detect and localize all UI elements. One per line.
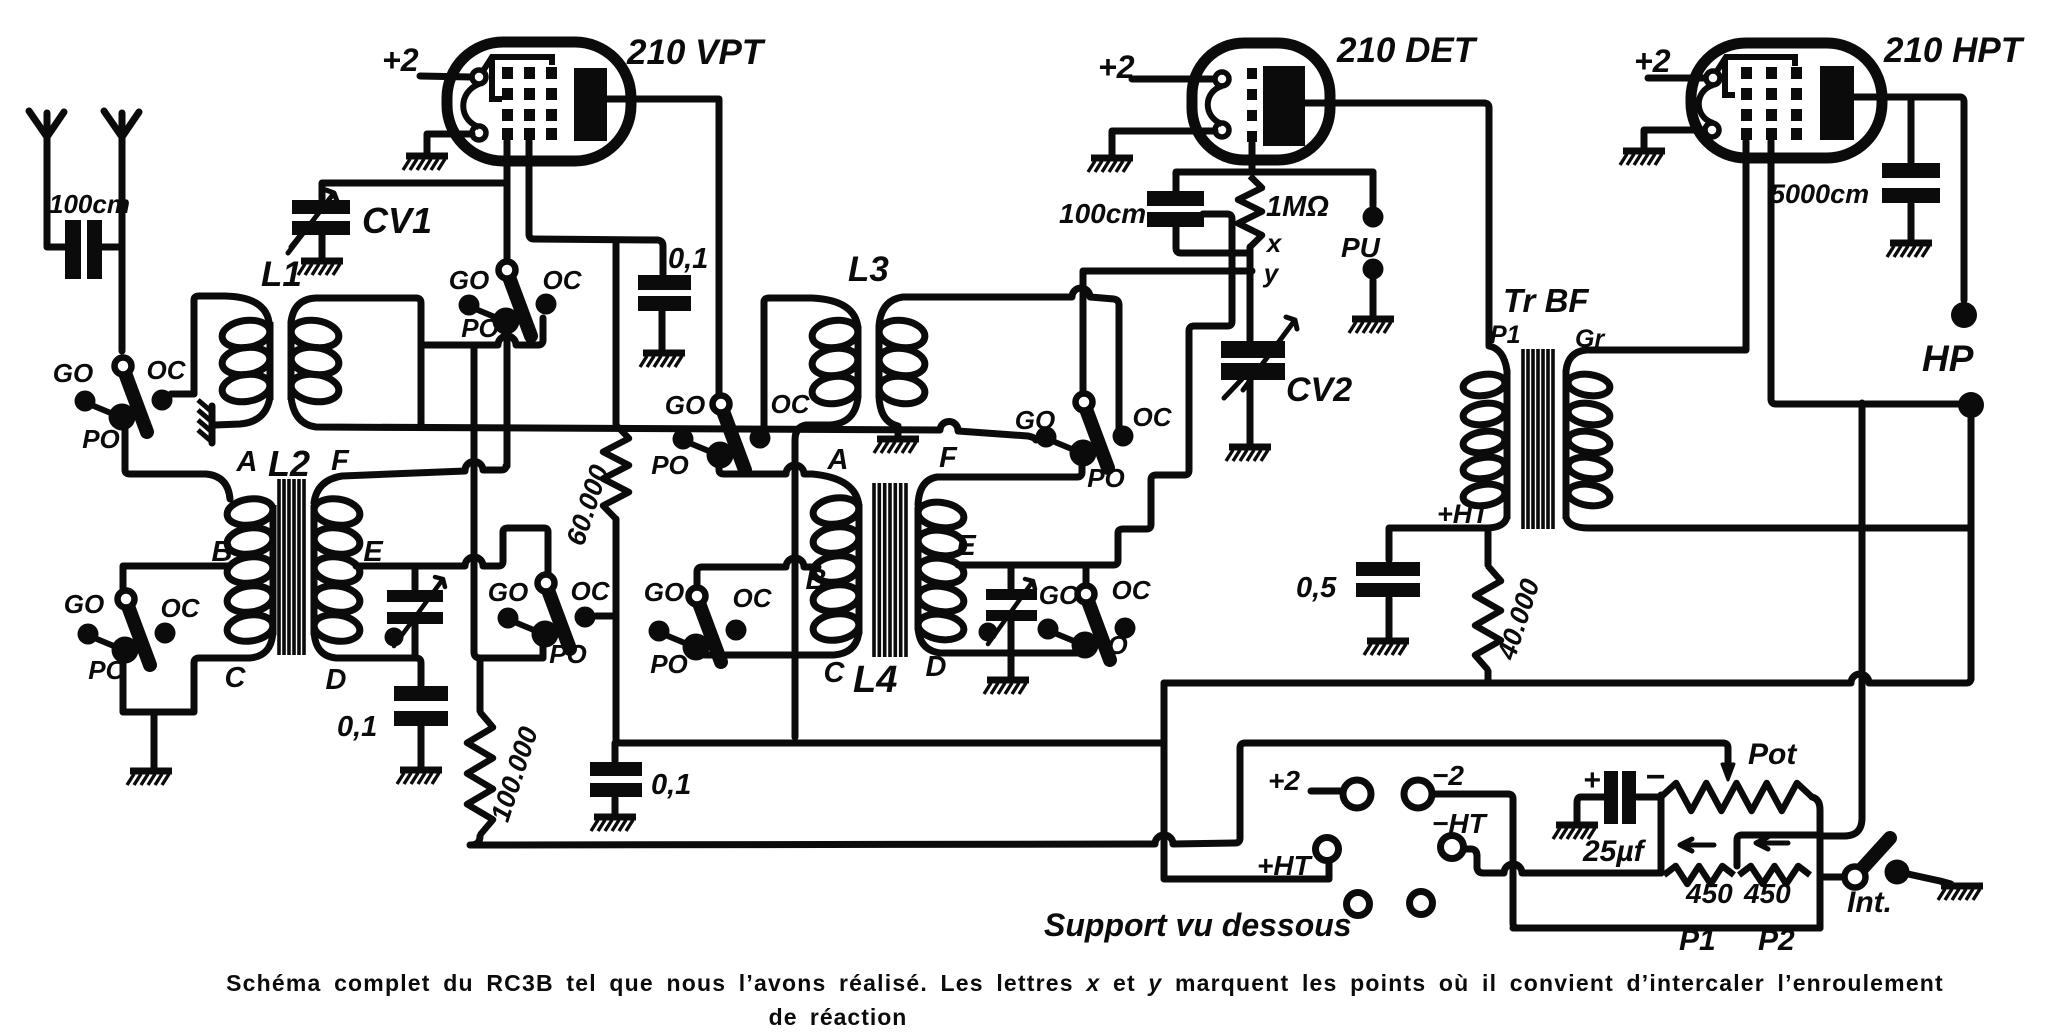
svg-text:OC: OC (147, 355, 187, 385)
svg-text:OC: OC (771, 389, 811, 419)
svg-text:+: + (1583, 764, 1601, 797)
svg-text:de réaction: de réaction (769, 1004, 908, 1030)
svg-text:CV1: CV1 (362, 200, 432, 241)
svg-text:CV2: CV2 (1286, 371, 1352, 409)
svg-text:GO: GO (53, 358, 93, 388)
svg-text:GO: GO (449, 265, 489, 295)
svg-text:450: 450 (1743, 878, 1791, 909)
svg-text:PU: PU (1341, 232, 1381, 263)
svg-text:5000cm: 5000cm (1770, 179, 1869, 209)
svg-text:A: A (827, 444, 849, 476)
svg-text:PO: PO (650, 649, 688, 679)
svg-text:−2: −2 (1432, 760, 1464, 791)
svg-text:B: B (806, 564, 827, 596)
svg-text:C: C (824, 657, 846, 689)
svg-text:PO: PO (88, 655, 126, 685)
svg-text:D: D (326, 664, 347, 696)
svg-text:210 VPT: 210 VPT (626, 33, 766, 72)
svg-text:GO: GO (488, 577, 528, 607)
svg-text:PO: PO (82, 424, 120, 454)
svg-text:PO: PO (549, 639, 587, 669)
svg-text:P2: P2 (1758, 924, 1795, 957)
svg-text:100cm: 100cm (49, 189, 130, 219)
svg-text:y: y (1262, 258, 1280, 288)
svg-text:L4: L4 (853, 659, 897, 701)
svg-text:0,1: 0,1 (668, 243, 708, 275)
svg-text:−: − (1645, 758, 1665, 796)
svg-text:Pot: Pot (1748, 738, 1798, 771)
svg-text:D: D (926, 651, 947, 683)
svg-text:Support vu dessous: Support vu dessous (1044, 907, 1352, 943)
svg-text:Gr: Gr (1575, 325, 1605, 353)
svg-text:E: E (956, 530, 977, 562)
svg-text:100cm: 100cm (1059, 198, 1146, 229)
svg-text:x: x (1265, 228, 1283, 258)
svg-text:OC: OC (571, 576, 611, 606)
svg-text:+2: +2 (1634, 43, 1671, 79)
svg-text:E: E (363, 536, 384, 568)
svg-text:PO: PO (1087, 463, 1125, 493)
svg-text:0,1: 0,1 (651, 769, 691, 801)
svg-text:P1: P1 (1679, 924, 1716, 957)
svg-text:0,1: 0,1 (337, 711, 377, 743)
svg-text:450: 450 (1685, 878, 1733, 909)
svg-text:P1: P1 (1490, 321, 1521, 349)
svg-text:+2: +2 (1268, 765, 1300, 796)
svg-text:OC: OC (733, 583, 773, 613)
svg-text:C: C (225, 662, 247, 694)
svg-text:210 HPT: 210 HPT (1883, 31, 2025, 70)
svg-text:PO: PO (1090, 630, 1128, 660)
svg-text:F: F (939, 442, 958, 474)
svg-text:PO: PO (651, 450, 689, 480)
svg-text:PO: PO (461, 313, 499, 343)
svg-text:25µf: 25µf (1582, 835, 1647, 868)
svg-text:Schéma complet du RC3B tel qu: Schéma complet du RC3B tel que nous l’av… (226, 970, 1944, 996)
svg-text:+2: +2 (1098, 49, 1135, 85)
svg-text:+HT: +HT (1437, 499, 1491, 529)
svg-text:GO: GO (1015, 405, 1055, 435)
svg-text:OC: OC (543, 265, 583, 295)
svg-text:Int.: Int. (1847, 886, 1892, 919)
svg-text:210 DET: 210 DET (1336, 31, 1478, 70)
svg-text:B: B (212, 536, 233, 568)
svg-text:GO: GO (644, 577, 684, 607)
svg-text:+2: +2 (382, 42, 419, 78)
svg-text:OC: OC (1133, 402, 1173, 432)
svg-text:−HT: −HT (1432, 808, 1489, 839)
svg-text:0,5: 0,5 (1296, 572, 1337, 604)
svg-text:GO: GO (665, 390, 705, 420)
svg-text:L2: L2 (268, 443, 310, 484)
svg-text:HP: HP (1922, 338, 1974, 379)
svg-text:Tr BF: Tr BF (1503, 282, 1589, 319)
svg-text:L1: L1 (261, 255, 302, 294)
svg-text:GO: GO (64, 589, 104, 619)
svg-text:A: A (236, 446, 258, 478)
svg-text:L3: L3 (848, 250, 889, 289)
svg-text:GO: GO (1039, 580, 1079, 610)
svg-text:OC: OC (1112, 575, 1152, 605)
svg-text:OC: OC (161, 593, 201, 623)
svg-text:+HT: +HT (1257, 850, 1314, 881)
svg-text:1MΩ: 1MΩ (1266, 191, 1329, 223)
svg-text:F: F (331, 445, 350, 477)
